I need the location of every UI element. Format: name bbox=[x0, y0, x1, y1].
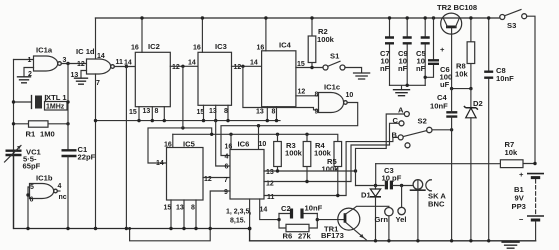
diode D2 (zener) bbox=[464, 89, 483, 241]
svg-text:IC2: IC2 bbox=[148, 42, 160, 51]
svg-text:A: A bbox=[398, 106, 404, 115]
wire TR2 base tap from rail bbox=[432, 16, 435, 19]
IC5 counter bbox=[156, 140, 212, 212]
node clock branch bbox=[125, 65, 128, 68]
wire bus stub down to IC6 pin6 bbox=[216, 121, 230, 166]
wire IC5 pin12 to IC6 pin7 bbox=[203, 177, 230, 179]
resistor R3 bbox=[274, 134, 303, 171]
wire IC5 pins 15,13,8 to rail bbox=[171, 200, 196, 229]
wire IC3 pins 15,13,8 to bus bbox=[204, 105, 229, 120]
switch S1 bbox=[323, 52, 345, 71]
svg-text:1: 1 bbox=[28, 57, 32, 64]
op-amp gate IC1a bbox=[28, 46, 67, 79]
wire IC4 pins 13,8 to bus bbox=[267, 107, 276, 121]
svg-text:R1: R1 bbox=[26, 130, 36, 139]
connector SK A BNC bbox=[410, 180, 447, 241]
terminal Yel bbox=[396, 186, 407, 225]
svg-text:10k: 10k bbox=[455, 70, 468, 79]
svg-text:B: B bbox=[392, 131, 398, 140]
wire IC1a output node bbox=[61, 63, 86, 65]
wire IC4 pin16 VDD drop bbox=[265, 18, 267, 51]
ground rail right bbox=[250, 240, 536, 242]
svg-text:16: 16 bbox=[225, 144, 233, 151]
svg-text:9: 9 bbox=[224, 189, 228, 196]
svg-text:100k: 100k bbox=[317, 35, 335, 44]
node rail IC1 pin7 bbox=[94, 227, 97, 230]
wire VDD drop to IC1d pin14 bbox=[95, 18, 97, 59]
svg-text:10nF: 10nF bbox=[430, 102, 448, 111]
wire IC1a pin1 bbox=[14, 59, 34, 61]
node C2/R6 right bbox=[316, 218, 319, 221]
node C2/R6 left bbox=[277, 218, 280, 221]
svg-text:nF: nF bbox=[398, 64, 408, 73]
svg-text:C2: C2 bbox=[281, 204, 291, 213]
left input vertical wire (IC1a pin1 / XTL / VC1 net) bbox=[13, 60, 15, 151]
svg-text:+: + bbox=[440, 45, 445, 54]
ground decoupling caps bbox=[394, 90, 410, 96]
resistor R7 bbox=[376, 140, 535, 168]
node XTL left bbox=[12, 100, 15, 103]
svg-text:8: 8 bbox=[155, 108, 159, 115]
svg-text:15: 15 bbox=[164, 205, 172, 212]
capacitor C8 bbox=[484, 16, 514, 241]
IC3 counter bbox=[188, 42, 241, 116]
ground main (battery negative) bbox=[502, 241, 519, 248]
svg-text:6: 6 bbox=[30, 197, 34, 204]
svg-text:C: C bbox=[393, 116, 399, 125]
svg-text:27k: 27k bbox=[298, 232, 311, 241]
wire clock branch down bbox=[125, 67, 127, 229]
svg-text:13: 13 bbox=[176, 205, 184, 212]
terminal Grn bbox=[375, 208, 394, 243]
svg-text:8: 8 bbox=[191, 205, 195, 212]
wire IC6 pin11 to S2 contact B bbox=[264, 137, 398, 195]
capacitor C7 bbox=[380, 16, 394, 85]
svg-text:1MHz: 1MHz bbox=[46, 104, 65, 111]
capacitor C4 bbox=[430, 93, 457, 117]
svg-text:IC4: IC4 bbox=[279, 41, 292, 50]
transistor TR1 bbox=[321, 208, 366, 240]
svg-text:65pF: 65pF bbox=[23, 162, 41, 171]
svg-text:14: 14 bbox=[250, 60, 258, 67]
op-amp gate IC1b bbox=[30, 174, 67, 204]
svg-text:nF: nF bbox=[380, 64, 390, 73]
svg-text:11: 11 bbox=[116, 59, 124, 66]
svg-text:Grn: Grn bbox=[375, 215, 389, 224]
crystal XTL1 bbox=[14, 93, 69, 111]
node rail C1 bbox=[26, 227, 29, 230]
wire IC2 pin16 VDD drop bbox=[141, 18, 143, 52]
wire R7 bias drop to output node bbox=[375, 164, 377, 186]
svg-text:8: 8 bbox=[315, 92, 319, 99]
svg-text:14: 14 bbox=[188, 60, 196, 67]
wire VDD line for IC5/IC6/R3-R5 bbox=[173, 134, 338, 141]
resistor R6 bbox=[279, 214, 317, 241]
ground rail left bbox=[14, 150, 250, 241]
svg-text:16: 16 bbox=[131, 45, 139, 52]
transistor TR2 bbox=[437, 3, 477, 89]
svg-text:16: 16 bbox=[164, 142, 172, 149]
wire S3 to battery positive bbox=[527, 16, 535, 164]
wire emitter node line bbox=[452, 88, 471, 90]
IC4 counter bbox=[250, 41, 305, 116]
ground after S1 bbox=[354, 73, 370, 79]
wire S2 wiper to C4 net bbox=[432, 129, 452, 131]
capacitor C3 bbox=[382, 166, 414, 189]
svg-text:IC3: IC3 bbox=[215, 42, 227, 51]
wire IC1c output down-left (lineB) bbox=[221, 103, 358, 156]
ground bus under counters bbox=[96, 120, 281, 122]
top VDD rail bbox=[96, 17, 503, 19]
node R1 right bbox=[66, 122, 69, 125]
svg-text:Yel: Yel bbox=[396, 215, 407, 224]
wire output line from column to C3 bbox=[356, 185, 385, 187]
battery B1 bbox=[512, 170, 545, 241]
svg-text:IC1b: IC1b bbox=[36, 174, 53, 183]
node R1 left bbox=[12, 122, 15, 125]
svg-text:+: + bbox=[519, 170, 524, 179]
capacitor C2 bbox=[279, 204, 323, 219]
svg-text:10 pF: 10 pF bbox=[382, 174, 402, 183]
wire IC1d output to IC2 pin14 bbox=[114, 66, 135, 68]
wire IC3 pin16 VDD drop bbox=[201, 18, 203, 52]
switch S2 bbox=[392, 106, 432, 148]
node rail clock-branch bbox=[125, 227, 128, 230]
node IC1b input junction bbox=[26, 193, 29, 196]
wire IC4 pin15 to S1 bbox=[296, 67, 323, 69]
diode D1 bbox=[361, 186, 381, 241]
svg-text:IC1c: IC1c bbox=[324, 83, 340, 92]
svg-text:100k: 100k bbox=[285, 149, 303, 158]
wire IC1 pin7 ground return bbox=[95, 74, 97, 229]
svg-text:1M0: 1M0 bbox=[40, 130, 55, 139]
svg-text:7: 7 bbox=[224, 177, 228, 184]
svg-text:8: 8 bbox=[224, 108, 228, 115]
wire IC3 pin12 out to IC4 pin14 bbox=[232, 65, 262, 67]
capacitor VC1 (trimmer) bbox=[5, 146, 42, 229]
svg-text:nc: nc bbox=[59, 194, 67, 201]
resistor R1 bbox=[14, 121, 69, 139]
svg-text:6: 6 bbox=[225, 164, 229, 171]
node Yel tap bbox=[400, 184, 403, 187]
svg-text:IC 1d: IC 1d bbox=[76, 47, 95, 56]
node IC6 pin10 stub on lineB bbox=[257, 124, 260, 127]
svg-text:PP3: PP3 bbox=[512, 202, 526, 211]
capacitor C5 bbox=[416, 16, 430, 85]
svg-text:13: 13 bbox=[143, 108, 151, 115]
svg-text:100k: 100k bbox=[322, 165, 340, 174]
wire IC1a pin2 to ground bbox=[24, 68, 34, 77]
wire IC6 pin9 to rail bbox=[210, 191, 230, 229]
wire IC5 pin16 stub bbox=[172, 134, 174, 147]
wire IC6 pin12 to S2 contact C bbox=[264, 123, 399, 181]
wire C4 net down to rail bbox=[451, 117, 453, 241]
op-amp gate IC1d bbox=[71, 47, 124, 87]
svg-text:7: 7 bbox=[96, 80, 100, 87]
svg-text:TR2 BC108: TR2 BC108 bbox=[437, 3, 477, 12]
svg-text:4: 4 bbox=[225, 154, 229, 161]
svg-text:S2: S2 bbox=[418, 117, 427, 126]
capacitor C1 bbox=[62, 124, 96, 229]
wire S1 to ground bbox=[345, 68, 362, 73]
svg-text:10: 10 bbox=[346, 92, 354, 99]
wire decoupling ground line bbox=[390, 85, 426, 89]
capacitor C6 (electrolytic) bbox=[424, 18, 453, 89]
svg-text:13: 13 bbox=[266, 169, 274, 176]
op-amp gate IC1c bbox=[315, 83, 354, 116]
svg-text:BF173: BF173 bbox=[321, 231, 344, 240]
wire lower loop bbox=[130, 229, 211, 241]
svg-text:16: 16 bbox=[193, 45, 201, 52]
ground IC1d pin13 bbox=[75, 78, 88, 84]
svg-text:15: 15 bbox=[129, 109, 137, 116]
wire to TR1 base bbox=[317, 219, 344, 221]
svg-text:D1: D1 bbox=[361, 191, 371, 200]
svg-text:IC6: IC6 bbox=[238, 140, 250, 149]
resistor R5 bbox=[322, 142, 342, 196]
wire IC2 pins 15,13,8 to bus bbox=[139, 107, 164, 121]
svg-text:14: 14 bbox=[260, 207, 268, 214]
svg-text:8: 8 bbox=[272, 109, 276, 116]
wire IC2 pin12 out to IC3 pin14 bbox=[170, 65, 198, 67]
svg-text:22pF: 22pF bbox=[78, 153, 96, 162]
svg-text:12: 12 bbox=[298, 89, 306, 96]
svg-text:5: 5 bbox=[30, 184, 34, 191]
node junction pin3 bbox=[66, 62, 69, 65]
svg-text:IC1a: IC1a bbox=[36, 46, 53, 55]
svg-text:13: 13 bbox=[256, 109, 264, 116]
svg-text:8,15.: 8,15. bbox=[230, 218, 246, 225]
resistor R2 bbox=[308, 16, 334, 67]
node XTL right bbox=[66, 100, 69, 103]
svg-text:IC5: IC5 bbox=[183, 140, 196, 149]
svg-text:S1: S1 bbox=[330, 52, 340, 61]
svg-text:12: 12 bbox=[172, 64, 180, 71]
resistor R8 bbox=[455, 16, 475, 88]
svg-text:10k: 10k bbox=[505, 148, 518, 157]
wire lineA clock to IC5 pin14 bbox=[148, 128, 212, 163]
svg-text:1, 2,3,5,: 1, 2,3,5, bbox=[226, 209, 251, 216]
wire IC6 pins 1,2,3,5,8,15 to rail bbox=[249, 199, 251, 229]
wire output branch down to R1/XTL net bbox=[67, 64, 69, 124]
resistor R4 bbox=[303, 134, 331, 181]
svg-text:uF: uF bbox=[440, 80, 450, 89]
svg-text:12: 12 bbox=[77, 61, 85, 68]
svg-text:10nF: 10nF bbox=[496, 74, 514, 83]
svg-text:nF: nF bbox=[416, 64, 426, 73]
wire IC4 pin12 to IC1c pin8 bbox=[296, 95, 319, 97]
svg-text:16: 16 bbox=[257, 45, 265, 52]
svg-text:S3: S3 bbox=[507, 21, 516, 30]
ground IC1a pin2 bbox=[18, 77, 31, 83]
svg-text:14: 14 bbox=[156, 160, 164, 167]
wire IC6 pin16 stub bbox=[230, 134, 232, 149]
wire TR1 collector to Grn tap bbox=[354, 206, 389, 208]
wire IC6 pin14 to C2/R6 bbox=[260, 199, 279, 220]
wire IC1b inputs tied bbox=[28, 187, 30, 229]
wire output column to contact A bbox=[356, 114, 405, 186]
wire IC6 pin13 to S2 contact A bbox=[264, 170, 356, 172]
svg-text:4: 4 bbox=[58, 183, 62, 190]
svg-text:−: − bbox=[519, 215, 524, 224]
capacitor C9 bbox=[398, 16, 412, 85]
IC2 counter bbox=[124, 42, 180, 116]
wire IC1d pin13 to ground bbox=[81, 71, 87, 79]
svg-text:BNC: BNC bbox=[428, 200, 445, 209]
svg-text:12: 12 bbox=[234, 64, 242, 71]
svg-text:10nF: 10nF bbox=[305, 204, 323, 213]
wire IC1c pin9 from clock branch bbox=[243, 66, 319, 110]
wire IC6 pin10 stub bbox=[258, 126, 260, 150]
svg-text:XTL 1: XTL 1 bbox=[46, 93, 67, 102]
svg-text:D2: D2 bbox=[473, 99, 483, 108]
switch S3 bbox=[500, 10, 527, 31]
svg-text:R6: R6 bbox=[283, 232, 293, 241]
svg-text:10: 10 bbox=[259, 141, 267, 148]
svg-text:14: 14 bbox=[124, 60, 132, 67]
IC6 counter bbox=[224, 140, 275, 214]
